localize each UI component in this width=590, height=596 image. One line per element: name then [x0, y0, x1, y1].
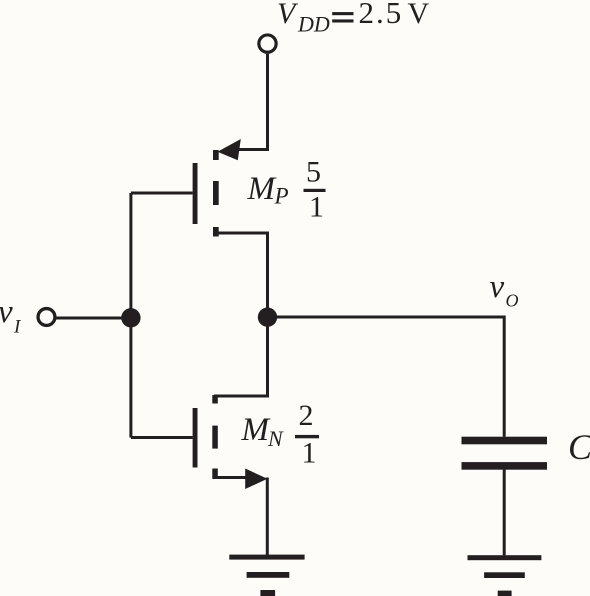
label MP	[247, 171, 289, 209]
wire MN source lead	[214, 476, 248, 479]
wire MP drain to output node	[214, 233, 268, 317]
terminal VDD	[259, 35, 276, 52]
svg-text:V: V	[408, 0, 430, 30]
value W/L = 2/1	[295, 399, 319, 470]
value W/L = 5/1	[304, 155, 326, 223]
label vO	[490, 269, 519, 311]
svg-text:5: 5	[306, 155, 321, 188]
ground (capacitor)	[468, 555, 542, 596]
wire MP gate lead	[131, 192, 193, 195]
label MN	[241, 412, 285, 451]
svg-text:2: 2	[299, 399, 314, 432]
wire MN source to ground	[266, 478, 269, 556]
wire vI to gate bus	[56, 317, 130, 320]
svg-text:2.5: 2.5	[359, 0, 404, 30]
wire output node to capacitor	[268, 317, 505, 437]
transistor MP (PMOS)	[193, 139, 241, 237]
ground (MN source)	[229, 555, 304, 596]
junction input node	[121, 308, 140, 327]
svg-text:v: v	[490, 269, 505, 305]
svg-text:P: P	[274, 184, 289, 209]
junction output node	[258, 308, 277, 327]
svg-text:1: 1	[302, 437, 317, 470]
svg-text:v: v	[0, 294, 13, 330]
capacitor C	[462, 437, 548, 470]
svg-text:N: N	[267, 426, 284, 451]
label vI	[0, 294, 22, 338]
svg-text:C: C	[568, 427, 590, 467]
svg-text:O: O	[506, 291, 519, 311]
svg-text:M: M	[247, 171, 277, 207]
wire VDD terminal to MP source	[239, 54, 268, 150]
label VDD = 2.5 V	[277, 0, 430, 37]
svg-text:DD: DD	[297, 12, 330, 37]
wire MN gate lead	[131, 436, 193, 439]
wire output node to MN drain	[214, 317, 268, 396]
terminal vI	[38, 309, 55, 326]
svg-text:M: M	[241, 412, 271, 448]
transistor MN (NMOS)	[193, 395, 268, 489]
svg-text:1: 1	[309, 190, 324, 223]
wire capacitor to ground	[503, 469, 506, 555]
wire gate bus	[129, 193, 132, 438]
